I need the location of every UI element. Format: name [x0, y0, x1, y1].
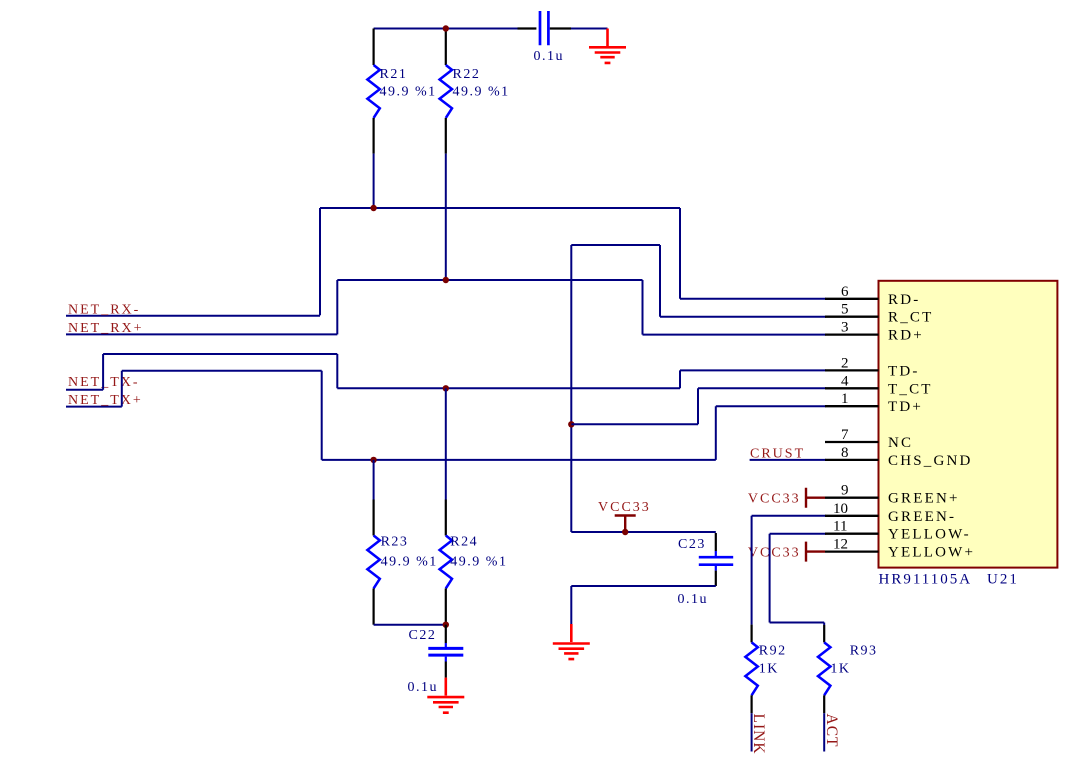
svg-text:T_CT: T_CT — [888, 381, 933, 397]
svg-text:U21: U21 — [987, 572, 1019, 588]
wire NET_RX- riser — [319, 208, 321, 315]
junction R21 on RD- net — [370, 205, 376, 211]
pin 10 GREEN- — [825, 501, 956, 525]
ground (C22) — [427, 678, 464, 713]
svg-text:R23: R23 — [381, 534, 409, 549]
wire R22 bottom — [445, 154, 447, 280]
wire NET_RX+ label stub — [66, 333, 337, 335]
wire YELLOW- to R93 — [770, 534, 826, 625]
svg-text:8: 8 — [841, 445, 849, 461]
svg-text:C22: C22 — [409, 628, 437, 643]
capacitor C21 (0.1u) — [518, 11, 572, 64]
wire NET_RX+ riser — [336, 280, 338, 334]
svg-text:1K: 1K — [830, 662, 850, 677]
wire NET_TX+ label stub — [66, 406, 122, 408]
capacitor C22 (0.1u) — [408, 625, 464, 695]
wire net RD+ horizontal — [337, 279, 642, 281]
junction C22 — [443, 622, 449, 628]
junction R23 on TD+ net — [370, 457, 376, 463]
svg-text:49.9 %1: 49.9 %1 — [450, 554, 507, 569]
wire T_CT feed — [571, 388, 826, 424]
svg-text:49.9 %1: 49.9 %1 — [380, 85, 437, 100]
pin 6 RD- — [825, 284, 920, 308]
svg-text:1: 1 — [841, 391, 849, 407]
svg-text:NET_RX+: NET_RX+ — [68, 321, 144, 336]
junction R24 on TD- net — [443, 385, 449, 391]
svg-text:ACT: ACT — [823, 714, 840, 748]
svg-text:HR911105A: HR911105A — [879, 572, 973, 588]
wire R23-R24 bottom rail — [374, 624, 446, 626]
wire R21 bottom — [373, 154, 375, 208]
svg-text:LINK: LINK — [750, 714, 767, 755]
wire VCC33 center-tap rail — [571, 531, 716, 533]
resistor R21 — [367, 29, 436, 154]
capacitor C23 (0.1u) — [678, 533, 734, 607]
svg-text:R93: R93 — [850, 644, 878, 659]
ground (top right) — [589, 29, 626, 63]
svg-text:GREEN-: GREEN- — [888, 509, 956, 525]
svg-text:0.1u: 0.1u — [534, 49, 565, 64]
svg-text:4: 4 — [841, 373, 849, 389]
svg-text:CHS_GND: CHS_GND — [888, 453, 973, 469]
svg-text:VCC33: VCC33 — [598, 500, 651, 515]
wire center-tap vertical — [570, 245, 572, 532]
wire NET_RX- label stub — [66, 315, 320, 317]
svg-text:11: 11 — [833, 519, 847, 535]
svg-text:5: 5 — [841, 302, 849, 318]
svg-text:C23: C23 — [678, 537, 706, 552]
svg-text:R21: R21 — [380, 67, 408, 82]
wire RD+ drop and pin feed — [643, 280, 827, 335]
ground (C23) — [553, 624, 590, 659]
svg-text:R22: R22 — [453, 67, 481, 82]
power port VCC33 (pin 12) — [748, 542, 825, 562]
svg-text:0.1u: 0.1u — [408, 680, 439, 695]
pin 5 R_CT — [825, 302, 933, 326]
power port VCC33 (pin 9) — [748, 488, 825, 508]
resistor R92 — [745, 625, 786, 714]
svg-text:7: 7 — [841, 427, 849, 443]
svg-text:NC: NC — [888, 435, 913, 451]
svg-text:49.9 %1: 49.9 %1 — [381, 554, 438, 569]
junction R22 on RD+ net — [443, 277, 449, 283]
svg-text:VCC33: VCC33 — [748, 492, 801, 507]
svg-text:RD-: RD- — [888, 292, 920, 308]
svg-text:9: 9 — [841, 483, 849, 499]
junction T_CT tap — [568, 421, 574, 427]
svg-text:YELLOW+: YELLOW+ — [888, 545, 975, 561]
pin 3 RD+ — [825, 320, 924, 344]
pin 4 T_CT — [825, 373, 933, 397]
svg-text:3: 3 — [841, 320, 849, 336]
pin 9 GREEN+ — [825, 483, 960, 507]
wire top rail — [374, 28, 608, 30]
wire C23 bottom to ground — [571, 586, 716, 624]
IC U21 HR911105A body — [879, 281, 1058, 568]
svg-text:R92: R92 — [759, 644, 787, 659]
junction R22 top rail — [443, 25, 449, 31]
pin 1 TD+ — [825, 391, 923, 415]
pin 2 TD- — [825, 355, 920, 379]
svg-text:GREEN+: GREEN+ — [888, 491, 960, 507]
svg-text:TD+: TD+ — [888, 399, 923, 415]
wire NET_TX+ route — [122, 371, 826, 460]
wire NET_TX- route — [103, 354, 826, 390]
resistor R23 — [367, 460, 437, 625]
svg-text:R24: R24 — [450, 534, 478, 549]
svg-text:VCC33: VCC33 — [748, 546, 801, 561]
svg-text:RD+: RD+ — [888, 328, 924, 344]
pin 8 CHS_GND — [825, 445, 973, 469]
wire CRUST stub — [750, 459, 826, 461]
resistor R93 — [818, 625, 878, 713]
svg-text:TD-: TD- — [888, 363, 920, 379]
resistor R22 — [440, 29, 510, 154]
svg-text:12: 12 — [833, 537, 848, 553]
svg-text:2: 2 — [841, 355, 849, 371]
wire RD- riser and pin feed — [680, 208, 826, 299]
svg-text:6: 6 — [841, 284, 849, 300]
svg-text:CRUST: CRUST — [750, 447, 805, 462]
wire LINK stub — [751, 713, 753, 751]
power port VCC33 (center tap) — [598, 500, 651, 535]
wire R_CT feed — [571, 245, 826, 317]
svg-text:10: 10 — [833, 501, 848, 517]
pin 11 YELLOW- — [825, 519, 971, 543]
wire NET_TX- label stub — [66, 389, 103, 391]
svg-text:1K: 1K — [759, 662, 779, 677]
svg-text:0.1u: 0.1u — [678, 592, 709, 607]
svg-text:NET_RX-: NET_RX- — [68, 302, 140, 317]
svg-text:NET_TX+: NET_TX+ — [68, 393, 143, 408]
resistor R24 — [440, 388, 508, 624]
wire GREEN- to R92 — [752, 516, 826, 625]
pin 12 YELLOW+ — [825, 537, 975, 561]
svg-text:49.9 %1: 49.9 %1 — [453, 85, 510, 100]
wire net RD- horizontal — [320, 207, 680, 209]
wire ACT stub — [823, 713, 825, 751]
svg-text:YELLOW-: YELLOW- — [888, 527, 971, 543]
svg-text:R_CT: R_CT — [888, 310, 933, 326]
pin 7 NC — [825, 427, 913, 451]
